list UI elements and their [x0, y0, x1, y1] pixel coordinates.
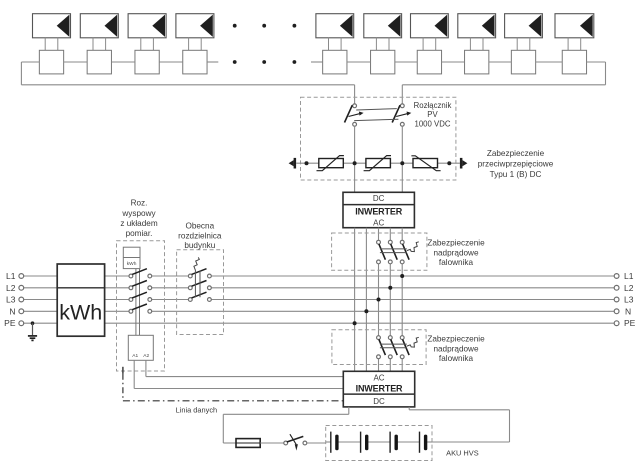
dashed enclosure: breaker F2 (inverter overcurrent, lower) [332, 330, 426, 365]
optimizer box 10 [562, 50, 586, 74]
svg-text:L3: L3 [624, 295, 634, 305]
svg-text:przeciwprzepięciowe: przeciwprzepięciowe [478, 159, 554, 168]
wire: AC L3 drop (through both breakers) [378, 228, 380, 372]
dashed enclosure: battery AKU HVS [326, 426, 432, 461]
dashed enclosure: Obecna rozdzielnica budynku [177, 250, 224, 335]
svg-text:INWERTER: INWERTER [355, 207, 402, 217]
building breaker F0 contact L2 [188, 281, 211, 290]
PV module panel 10 [555, 14, 594, 38]
PV module panel 7 [411, 14, 449, 38]
wire: switch poles down to surge bus / inverter DC [355, 126, 403, 192]
label Obecna rozdzielnica budynku [178, 222, 222, 251]
optimizer box 8 [465, 50, 489, 74]
data line (Linia danych) meter to inverter2 [123, 367, 343, 401]
earth terminal left [289, 158, 297, 169]
ellipsis dots (string continuation) [233, 24, 296, 64]
svg-text:L3: L3 [6, 295, 16, 305]
sub-meter kWh box [123, 247, 140, 268]
svg-text:falownika: falownika [439, 258, 474, 267]
svg-text:Roz.: Roz. [131, 199, 148, 208]
PV module panel 6 [364, 14, 402, 38]
svg-text:INWERTER: INWERTER [356, 383, 403, 393]
svg-text:Obecna: Obecna [185, 222, 214, 231]
svg-text:pomiar.: pomiar. [126, 229, 153, 238]
svg-text:wyspowy: wyspowy [121, 209, 156, 218]
varistor (SPD) V1 [317, 156, 344, 171]
svg-text:DC: DC [373, 397, 385, 406]
earth terminal right [460, 158, 468, 169]
building breaker F0 contact L3 [188, 292, 211, 301]
wire: battery internal links [326, 441, 432, 443]
contactor K1 contact L2 [129, 281, 152, 290]
breaker F1 pole [388, 240, 397, 263]
varistor (SPD) V3 [411, 156, 440, 171]
kWh meter M1 [57, 264, 104, 336]
building breaker coupling bars [195, 271, 200, 298]
svg-text:nadprądowe: nadprądowe [433, 249, 479, 258]
inverter U1 (top) [343, 192, 414, 227]
svg-text:PV: PV [427, 110, 438, 119]
wire: coil A1 to inverter2 [134, 360, 343, 388]
junction node dots on surge bus [305, 161, 452, 165]
optimizer box 4 [183, 50, 207, 74]
svg-text:kWh: kWh [59, 300, 102, 324]
svg-text:rozdzielnica: rozdzielnica [178, 232, 222, 241]
svg-text:Zabezpieczenie: Zabezpieczenie [427, 239, 485, 248]
fuse F3 [236, 439, 260, 448]
svg-text:Typu 1 (B) DC: Typu 1 (B) DC [490, 170, 542, 179]
PV module panel 1 [33, 14, 71, 38]
DC switch S1 pole 2 [392, 104, 411, 126]
dashed enclosure: Roz. wyspowy z ukladem pomiar. [117, 241, 165, 371]
breaker F1 pole [400, 240, 409, 263]
svg-text:L2: L2 [624, 283, 634, 293]
wire: contactor linkage / metering leads [136, 269, 140, 336]
breaker F1 trip hook [407, 242, 419, 252]
svg-text:N: N [9, 306, 15, 316]
svg-text:AC: AC [373, 218, 384, 227]
battery cell 4 [420, 432, 428, 453]
wire: inverter1 AC PE drop [354, 228, 356, 372]
wire: switch to battery box [307, 442, 326, 444]
optimizer box 1 [39, 50, 63, 74]
label Zabezpieczenie przeciwprzepieciowe Typu 1 (B) DC [478, 149, 554, 179]
DC switch mechanical coupling bars [354, 109, 398, 121]
wire: fuse to battery switch [260, 442, 284, 444]
contactor K1 contact L3 [129, 292, 152, 301]
svg-text:L1: L1 [624, 271, 634, 281]
svg-text:kWh: kWh [127, 261, 137, 267]
wire: panel 9 to optimizer 9 (2 leads) [517, 38, 530, 51]
wire: right string return to DC switch pole 2 [402, 62, 605, 104]
building breaker trip hook [194, 257, 199, 270]
optimizer box 2 [87, 50, 111, 74]
bus line N [24, 310, 614, 312]
wire: panel 3 to optimizer 3 (2 leads) [141, 38, 154, 51]
svg-text:budynku: budynku [184, 241, 215, 250]
bus line L2 [24, 287, 614, 289]
label Zabezpieczenie nadpradowe falownika (upper) [427, 239, 485, 267]
wire: panel 2 to optimizer 2 (2 leads) [93, 38, 106, 51]
wire: AC L1 drop (through both breakers) [401, 228, 403, 372]
wire: AC L2 drop (through both breakers) [389, 228, 391, 372]
svg-text:L2: L2 [6, 283, 16, 293]
label Rozlacznik PV 1000 VDC [414, 101, 452, 129]
svg-text:A1: A1 [132, 353, 138, 359]
breaker F2 pole [400, 336, 409, 359]
dashed enclosure: Rozlacznik PV + surge arresters [301, 97, 456, 180]
wire: battery + back to inverter2 DC+ [409, 407, 509, 442]
wire: panel 7 to optimizer 7 (2 leads) [423, 38, 436, 51]
bus line L1 [24, 275, 614, 277]
svg-text:L1: L1 [6, 271, 16, 281]
wire: left string return to DC switch pole 1 [21, 62, 354, 104]
breaker F2 coupling bars [380, 344, 407, 348]
left bus terminals [19, 274, 24, 326]
svg-text:A2: A2 [143, 353, 149, 359]
battery cell 3 [390, 432, 398, 453]
svg-text:1000 VDC: 1000 VDC [415, 120, 451, 129]
wire: string series links (left group) [64, 61, 219, 63]
breaker F2 pole [377, 336, 386, 359]
svg-text:PE: PE [4, 318, 16, 328]
dashed enclosure: breaker F1 (inverter overcurrent) [332, 233, 427, 270]
contactor K1 contact L1 [129, 269, 152, 278]
DC switch S1 pole 1 [345, 104, 364, 126]
svg-text:DC: DC [373, 194, 385, 203]
wire: panel 1 to optimizer 1 (2 leads) [45, 38, 58, 51]
battery disconnect switch S2 [284, 434, 307, 450]
varistor (SPD) V2 [364, 156, 391, 171]
contactor coil A1 A2 box [128, 335, 153, 360]
optimizer box 9 [511, 50, 535, 74]
PV module panel 5 [316, 14, 354, 38]
svg-text:PE: PE [624, 318, 636, 328]
label Zabezpieczenie nadpradowe falownika (lower) [427, 335, 485, 363]
label Roz. wyspowy z ukladem pomiar. [120, 199, 157, 238]
PV module panel 8 [458, 14, 496, 38]
junction dots: inverter drops onto buses [353, 274, 405, 325]
battery cell 2 [361, 432, 369, 453]
ground (earth electrode) [28, 323, 37, 340]
optimizer box 6 [371, 50, 395, 74]
svg-text:Linia danych: Linia danych [176, 405, 218, 414]
PV module panel 2 [80, 14, 118, 38]
wire: surge arrester bus [296, 162, 460, 164]
svg-text:Rozłącznik: Rozłącznik [414, 101, 452, 110]
svg-text:nadprądowe: nadprądowe [433, 344, 479, 353]
wire: inverter2 DC- to fuse [223, 407, 348, 443]
svg-text:N: N [625, 306, 631, 316]
wire: coil A2 to inverter2 [146, 360, 343, 376]
PV module panel 4 [176, 14, 214, 38]
battery cell 1 [331, 432, 339, 453]
wire: string series links (right group) [311, 61, 562, 63]
PV module panel 9 [505, 14, 543, 38]
svg-text:z układem: z układem [120, 219, 157, 228]
wire: panel 6 to optimizer 6 (2 leads) [376, 38, 389, 51]
building breaker F0 contact L1 [188, 269, 211, 278]
node: PE earthing junction [31, 321, 35, 325]
PV module panel 3 [128, 14, 166, 38]
bus line PE [24, 322, 614, 324]
breaker F1 coupling bars [380, 249, 407, 253]
right bus labels [624, 271, 636, 328]
breaker F2 trip hook [407, 337, 419, 347]
wire: panel 5 to optimizer 5 (2 leads) [329, 38, 342, 51]
breaker F1 pole [377, 240, 386, 263]
right bus terminals [614, 274, 619, 326]
wire: panel 10 to optimizer 10 (2 leads) [568, 38, 581, 51]
svg-text:Zabezpieczenie: Zabezpieczenie [427, 335, 485, 344]
svg-text:AKU HVS: AKU HVS [446, 448, 479, 457]
bus line L3 [24, 299, 614, 301]
left bus labels [4, 271, 16, 328]
svg-text:Zabezpieczenie: Zabezpieczenie [487, 149, 545, 158]
breaker F2 pole [388, 336, 397, 359]
svg-text:falownika: falownika [439, 354, 474, 363]
optimizer box 7 [417, 50, 441, 74]
optimizer box 3 [135, 50, 159, 74]
inverter U2 (bottom, hybrid) [343, 371, 414, 407]
wire: inverter1 AC N drop [365, 228, 367, 372]
wire: panel 4 to optimizer 4 (2 leads) [189, 38, 202, 51]
contactor K1 contact N [129, 304, 152, 313]
wire: panel 8 to optimizer 8 (2 leads) [470, 38, 483, 51]
optimizer box 5 [323, 50, 347, 74]
svg-text:AC: AC [373, 374, 384, 383]
